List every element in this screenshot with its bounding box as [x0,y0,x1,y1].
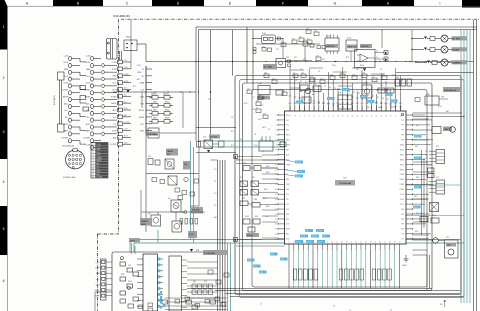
svg-text:P47: P47 [322,103,325,105]
svg-text:S2: S2 [426,158,428,160]
svg-text:10: 10 [92,168,94,170]
svg-text:35: 35 [327,242,329,244]
svg-text:11: 11 [92,171,94,173]
svg-text:P48: P48 [327,103,330,105]
svg-text:C12: C12 [276,49,279,51]
svg-text:5.0 V: 5.0 V [386,95,391,97]
svg-text:57: 57 [395,116,397,118]
voltage callouts below IC7 [247,253,288,275]
shield dash-dot net (X13-4660-00) [98,14,480,311]
teal horizontal y215 net [406,215,464,217]
svg-text:S0: S0 [426,151,428,153]
svg-text:58: 58 [390,116,392,118]
wire links left section [131,19,199,206]
svg-text:(B5E): (B5E) [141,224,146,226]
svg-text:64: 64 [361,116,363,118]
svg-text:41: 41 [355,242,357,244]
sub board lower components [95,270,229,311]
svg-text:4: 4 [93,152,94,154]
svg-text:68: 68 [342,116,344,118]
svg-text:4.9 V: 4.9 V [307,242,312,244]
svg-text:R77: R77 [346,57,349,59]
svg-text:P40: P40 [289,103,292,105]
IC7 left pins [275,114,291,241]
svg-text:KEY1: KEY1 [137,65,141,67]
wire right vertical bundle [461,20,477,311]
svg-text:5.0 V: 5.0 V [317,231,322,233]
svg-text:P13: P13 [286,209,289,211]
svg-text:3: 3 [93,149,94,151]
svg-text:(X13-4660-01): (X13-4660-01) [444,90,457,92]
resistor row R311 [395,79,412,86]
svg-text:3: 3 [3,130,5,134]
svg-text:79: 79 [289,116,291,118]
svg-text:R-CH: R-CH [124,136,128,138]
svg-text:4: 4 [3,180,5,184]
svg-text:16: 16 [275,189,277,191]
transistor Q6 [148,213,161,226]
svg-text:R-CH: R-CH [112,69,117,71]
IC8A hatched box [430,203,439,212]
svg-text:26: 26 [275,239,277,241]
svg-text:74: 74 [313,116,315,118]
svg-text:ILL-: ILL- [113,124,116,126]
svg-text:28: 28 [293,242,295,244]
svg-text:15: 15 [275,184,277,186]
sub board passives [120,256,139,295]
svg-text:P81: P81 [401,214,404,216]
svg-text:14: 14 [275,179,277,181]
board edge connector CN103 boxes [110,60,131,146]
svg-text:DTC144: DTC144 [210,137,217,139]
svg-text:P70: P70 [401,115,404,117]
svg-text:C46: C46 [330,74,333,76]
resistor network RN3 [372,269,391,280]
svg-text:P59: P59 [380,103,383,105]
svg-text:1: 1 [3,25,5,29]
IC7 top pin numbers [289,116,401,118]
svg-text:4.9 V: 4.9 V [296,162,301,164]
diode D13 resistor R13 pair [415,61,437,65]
svg-text:P82: P82 [401,219,404,221]
svg-text:C62: C62 [292,38,295,40]
component ref labels scatter [120,47,449,283]
wire pair to bottom right [413,250,430,291]
svg-text:COM2: COM2 [399,184,404,186]
capacitor C103 [83,107,89,111]
svg-text:66: 66 [352,116,354,118]
svg-text:5.0 V: 5.0 V [328,99,333,101]
svg-text:C15: C15 [301,72,304,74]
svg-text:5: 5 [3,227,5,231]
wire net y173 [146,66,199,232]
svg-text:SD0: SD0 [286,214,289,216]
svg-text:P02: P02 [286,125,289,127]
svg-text:(GND): (GND) [402,265,407,267]
svg-text:C82: C82 [272,78,275,80]
svg-text:CD-L: CD-L [64,76,68,78]
svg-text:CD-L: CD-L [86,76,90,78]
net name labels scatter [133,65,449,219]
svg-text:C8: C8 [382,74,384,76]
svg-text:C67: C67 [299,36,302,38]
svg-text:46: 46 [379,242,381,244]
svg-text:ILL+: ILL+ [97,166,100,168]
svg-text:C45: C45 [396,77,399,79]
svg-text:13: 13 [275,174,277,176]
svg-text:DATA: DATA [139,82,144,85]
svg-text:SENS: SENS [139,117,145,119]
border frame top strip [0,0,480,50]
svg-text:C77: C77 [307,38,310,40]
svg-text:C5: C5 [256,107,258,109]
svg-text:SEG3: SEG3 [400,159,404,161]
svg-text:P44: P44 [308,103,311,105]
svg-text:76: 76 [304,116,306,118]
svg-text:49: 49 [394,242,396,244]
svg-text:(X13): (X13) [130,240,135,242]
svg-text:P9: P9 [382,98,384,100]
svg-text:MUTE: MUTE [85,96,91,98]
svg-text:R77: R77 [446,237,449,239]
IC14 cluster [257,83,321,103]
svg-text:59: 59 [385,116,387,118]
svg-text:P49: P49 [332,103,335,105]
svg-text:C45: C45 [322,59,325,61]
svg-text:P50: P50 [337,103,340,105]
svg-text:43: 43 [365,242,367,244]
page reference arrows left [234,155,285,247]
svg-text:S-GND: S-GND [97,157,103,159]
svg-text:J3: J3 [333,306,335,308]
svg-text:C31: C31 [294,57,297,59]
svg-text:R56: R56 [242,198,245,200]
resistor pair R61 [428,168,435,178]
svg-text:CD-L: CD-L [96,279,100,281]
connector CN7 grid B [429,180,445,194]
IC13 reset [346,38,357,62]
capacitor cluster C41-C43 [243,219,260,237]
svg-text:45: 45 [375,242,377,244]
op-amp IC16 [353,29,388,71]
svg-text:X1 75kHz: X1 75kHz [264,67,272,69]
svg-text:P.CONT: P.CONT [61,138,68,140]
wires mid-left to IC7 [262,141,285,238]
teal vertical pair x228 [228,243,231,311]
svg-text:2SB1132: 2SB1132 [141,221,148,223]
svg-text:P03: P03 [286,130,289,132]
jack CN201 (MIC) [120,37,147,62]
svg-text:2: 2 [93,147,94,149]
svg-text:S1: S1 [426,155,428,157]
svg-text:C7: C7 [293,72,295,74]
crystal X1 [263,59,312,70]
transistor Q5 [168,198,181,212]
svg-text:(EXT ANT): (EXT ANT) [53,95,56,105]
teal net pair lower (to right bundle) [130,240,464,253]
sub board bottom wires [138,297,227,311]
svg-text:9: 9 [93,166,94,168]
svg-text:CE: CE [402,234,404,236]
svg-text:NJM2100: NJM2100 [361,46,369,48]
wire lamp feed vertical [396,30,473,73]
svg-text:4.2 V: 4.2 V [414,207,419,209]
svg-text:P.CONT: P.CONT [83,138,90,140]
svg-text:18: 18 [275,199,277,201]
IC3 cluster [243,163,278,171]
svg-text:P3: P3 [401,80,403,82]
svg-text:C67: C67 [247,88,250,90]
net labels mid-left [263,166,270,218]
svg-text:P4: P4 [310,83,312,85]
svg-text:P71: P71 [401,120,404,122]
svg-text:(CD/MD-CHG): (CD/MD-CHG) [63,177,76,179]
svg-text:P.CONT: P.CONT [110,144,117,146]
svg-text:12: 12 [275,169,277,171]
svg-text:P7: P7 [324,86,326,88]
svg-text:(C8): (C8) [184,164,188,166]
svg-text:C0: C0 [372,76,374,78]
svg-text:P11: P11 [286,199,289,201]
svg-text:P7: P7 [372,96,374,98]
svg-text:1: 1 [93,144,94,146]
teal net pair mid (to IC7) [199,141,285,147]
svg-text:60: 60 [380,116,382,118]
svg-text:C12: C12 [303,59,306,61]
svg-text:C45: C45 [286,57,289,59]
svg-text:P74: P74 [401,135,404,137]
svg-text:BR93L46: BR93L46 [327,46,335,48]
svg-text:5.0 V: 5.0 V [297,102,302,104]
filter module FL201 [107,39,118,60]
svg-text:S-GND: S-GND [84,90,90,92]
svg-text:F: F [282,2,284,6]
svg-text:P1: P1 [296,80,298,82]
svg-text:P5: P5 [315,84,317,86]
wire stubs column A to B [80,59,86,145]
wire drops below IC7 (key matrix) [289,250,399,289]
svg-text:22: 22 [275,219,277,221]
resistor network RN1 [293,269,317,280]
lamp L3 (DIMMER) [437,59,467,66]
svg-text:4.9 V: 4.9 V [296,176,301,178]
svg-text:71: 71 [328,116,330,118]
svg-text:IC5: IC5 [148,156,151,158]
svg-text:17: 17 [275,194,277,196]
svg-text:SEG4: SEG4 [400,164,404,166]
IC12 eeprom [325,35,339,55]
sub board lower cyan marks [160,291,162,309]
svg-text:G: G [334,2,337,6]
svg-text:67: 67 [347,116,349,118]
resistor pair R41 R42 [240,201,278,207]
svg-text:61: 61 [376,116,378,118]
svg-text:C54: C54 [340,72,343,74]
svg-text:C88: C88 [262,47,265,49]
svg-text:P46: P46 [317,103,320,105]
svg-text:P8: P8 [377,97,379,99]
board outline R4 [252,90,427,288]
svg-text:S-GND: S-GND [111,96,117,98]
svg-text:P4: P4 [358,93,360,95]
svg-text:P0: P0 [339,89,341,91]
connector CN2 label column [139,66,152,134]
svg-text:VSS: VSS [286,189,289,191]
IC9 cluster [338,93,352,110]
svg-text:38: 38 [341,242,343,244]
misc passives top band [247,28,387,118]
svg-text:5.0 V: 5.0 V [296,242,301,244]
svg-text:LA1837: LA1837 [167,150,173,153]
svg-text:70: 70 [332,116,334,118]
connector CN6 grid A [426,150,445,164]
svg-text:R56: R56 [420,213,423,215]
svg-text:P8: P8 [329,87,331,89]
svg-text:P2: P2 [300,81,302,83]
svg-text:IC4: IC4 [203,137,206,139]
crystal X2 [146,128,159,138]
svg-text:P9: P9 [334,88,336,90]
IC11 mute switch [303,40,326,61]
svg-text:S-GND: S-GND [94,290,100,292]
sub board label [129,238,227,255]
svg-text:(MIC): (MIC) [126,37,131,39]
svg-text:C76: C76 [362,72,365,74]
svg-text:65: 65 [356,116,358,118]
svg-text:C88: C88 [254,199,257,201]
svg-text:27: 27 [288,242,290,244]
svg-text:6: 6 [3,279,5,283]
wire stubs from bus to outlines [247,27,253,90]
svg-text:P83: P83 [401,224,404,226]
ground symbol near IC7 corner [402,255,409,267]
svg-text:62: 62 [371,116,373,118]
IC9B body [169,256,187,311]
svg-text:77: 77 [299,116,301,118]
resistor pair R65 [420,217,439,224]
svg-text:CD-L: CD-L [112,83,116,85]
svg-text:(X13-4650-00): (X13-4650-00) [62,146,75,148]
svg-text:REQ: REQ [140,96,144,98]
svg-text:LC75341M: LC75341M [204,253,215,255]
svg-text:X2 4.5MHz: X2 4.5MHz [147,134,157,136]
svg-text:(SCAN): (SCAN) [452,49,459,52]
transistor Q7B [172,221,182,232]
svg-text:C45: C45 [120,259,123,261]
svg-text:CD-R: CD-R [64,83,69,85]
bottom edge small labels [260,301,446,311]
diode D11 resistor R11 pair [412,37,437,41]
svg-text:23: 23 [275,224,277,226]
svg-text:R56: R56 [121,274,124,276]
svg-text:MUTE: MUTE [139,110,145,112]
voltage callouts right of IC7 [413,135,422,210]
svg-text:SEG0: SEG0 [400,145,404,147]
voltage callouts above IC7 [296,88,398,104]
svg-text:7: 7 [93,160,94,162]
IC5 buffer cluster [148,149,191,170]
svg-text:KEY1: KEY1 [286,140,290,142]
teal vertical x193 net [191,141,194,243]
net labels right of IC7 [414,125,420,233]
svg-text:SEG1: SEG1 [400,149,404,151]
svg-text:R105: R105 [360,65,364,67]
svg-text:P53: P53 [351,103,354,105]
svg-text:P52: P52 [346,103,349,105]
IC7 bottom pins [289,244,399,250]
svg-text:4.9 V: 4.9 V [298,172,303,174]
svg-text:P72: P72 [401,125,404,127]
svg-text:2.5 V: 2.5 V [312,236,317,238]
svg-text:C84: C84 [258,94,261,96]
svg-text:ILL+: ILL+ [64,110,68,112]
svg-text:RES: RES [286,179,289,181]
svg-text:72: 72 [323,116,325,118]
svg-text:78: 78 [294,116,296,118]
svg-text:X2: X2 [286,174,288,176]
svg-text:12: 12 [92,174,94,176]
svg-text:MUTE: MUTE [97,160,102,162]
svg-text:P73: P73 [401,130,404,132]
svg-text:C12: C12 [436,177,439,179]
sub board wires [132,243,218,298]
svg-text:KEY0: KEY0 [286,135,290,137]
svg-text:24: 24 [275,229,277,231]
svg-text:C66: C66 [306,28,309,30]
svg-text:5: 5 [93,155,94,157]
svg-text:IC9: IC9 [338,93,341,95]
svg-text:P51: P51 [341,103,344,105]
svg-text:ILL-: ILL- [87,117,90,119]
resistor row R51-R54 [180,219,198,225]
vertical bundle x217-226 [211,160,226,311]
transistor cluster Q301 [362,83,394,99]
svg-text:4.2 V: 4.2 V [415,187,420,189]
svg-text:L-CH: L-CH [124,129,128,131]
svg-text:PST9: PST9 [348,47,353,49]
svg-text:L-CH: L-CH [86,55,91,57]
svg-text:5.0 V: 5.0 V [391,101,396,103]
svg-text:2: 2 [3,76,5,80]
svg-text:VREF: VREF [286,164,290,166]
resistor grid sub board [192,284,213,295]
svg-text:MUTE: MUTE [95,296,100,298]
stub horizontals among drops [290,68,390,90]
svg-text:TEST: TEST [286,184,290,186]
svg-text:P75: P75 [401,140,404,142]
IC2 servo amp [259,136,286,151]
svg-text:P62: P62 [394,103,397,105]
svg-text:I: I [440,2,441,6]
svg-text:47: 47 [384,242,386,244]
svg-text:GND: GND [86,69,91,71]
svg-text:8: 8 [93,163,94,165]
IC7 top pins [289,103,402,111]
svg-text:R56: R56 [193,281,196,283]
svg-text:Q5: Q5 [168,198,170,200]
teal horizontal y185 net [406,184,461,186]
IC8 body [137,254,163,311]
detector cluster Q9 [152,176,199,200]
wire net y127 [196,128,236,153]
tick labels on drop wires [289,79,403,107]
resistor network RN2 [339,269,363,280]
svg-text:13: 13 [92,177,94,179]
regulator cluster IC10 [252,33,320,59]
svg-text:44: 44 [370,242,372,244]
svg-text:40: 40 [351,242,353,244]
svg-text:4.2 V: 4.2 V [415,136,420,138]
